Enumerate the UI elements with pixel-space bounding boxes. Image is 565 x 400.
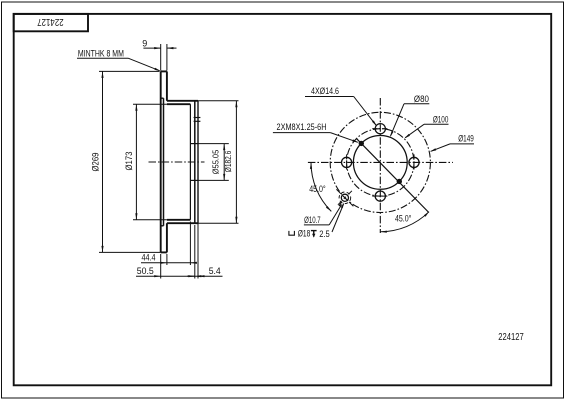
face view vertical centreline [379, 98, 381, 233]
dim D269 arrows [101, 71, 103, 78]
diagonal line through M8 holes [357, 139, 429, 213]
D10.7 hole tilted centrelines [336, 189, 353, 206]
set screw hole D10.7 circle [341, 194, 348, 201]
dim 5.4 extension line [197, 208, 199, 279]
MINTHK underline [77, 57, 129, 59]
hub mounting face [194, 101, 196, 223]
centre bore bottom (D55.05) [190, 179, 198, 181]
dim 50.5 arrows [154, 275, 161, 277]
MINTHK leader line [129, 58, 160, 70]
bolt hole D14.6 bottom [375, 191, 385, 201]
svg-text:45.0°: 45.0° [309, 184, 326, 195]
disc inboard face lower [166, 223, 168, 252]
dim 50.5 dimension line [136, 275, 200, 277]
bolt hole D14.6 left [342, 157, 352, 167]
svg-text:Ø173: Ø173 [124, 152, 134, 171]
label 4XD14.6 leader [354, 97, 377, 126]
disc OD top edge [161, 70, 167, 72]
pilot circle D80 (solid) [353, 136, 407, 190]
svg-text:2.5: 2.5 [319, 229, 330, 239]
label D100 leader [405, 124, 424, 137]
dim D182.6 dimension line [235, 101, 237, 223]
label 2XM8X1.25-6H leader [330, 133, 357, 143]
svg-text:9: 9 [142, 38, 147, 48]
svg-text:Ø182.6: Ø182.6 [223, 151, 233, 173]
dim 5.4 arrows [188, 275, 195, 277]
dim 44.4 extension lines [166, 254, 168, 265]
threaded hole M8 lower-right (filled) [397, 179, 402, 184]
hat outer circle D149 (dash-dot) [330, 112, 430, 212]
dim 44.4 arrows [160, 262, 167, 264]
hat interior ceiling bottom (D173) [167, 219, 191, 221]
title box top-left [14, 14, 88, 31]
svg-text:5.4: 5.4 [209, 266, 221, 276]
label D80 leader [391, 104, 405, 136]
svg-text:Ø55.05: Ø55.05 [211, 150, 221, 175]
svg-text:4XØ14.6: 4XØ14.6 [311, 86, 339, 96]
svg-text:Ø18: Ø18 [298, 229, 311, 239]
label 4XD14.6 arrow [372, 121, 377, 127]
svg-text:2XM8X1.25-6H: 2XM8X1.25-6H [277, 122, 327, 132]
MINTHK leader arrow [154, 68, 160, 71]
svg-text:MINTHK 8 MM: MINTHK 8 MM [78, 48, 124, 58]
bolt circle D100 (dash-dot) [347, 129, 414, 196]
dim D173 arrows [135, 104, 137, 111]
dim D55.05 dimension line [223, 144, 225, 181]
hat crown interior face [189, 104, 191, 220]
45deg arc left arrows [310, 162, 312, 169]
disc OD bottom edge [161, 251, 167, 253]
disc outboard (left) face [160, 71, 162, 252]
svg-text:Ø100: Ø100 [433, 114, 449, 124]
counterbore note leader [332, 204, 344, 232]
dim D182.6 extension lines [195, 100, 239, 102]
label D100 arrow [404, 134, 410, 139]
svg-text:Ø10.7: Ø10.7 [304, 215, 321, 225]
hat outer surface top (D182.6) [167, 100, 198, 102]
bolt hole D14.6 top [375, 124, 385, 134]
svg-text:44.4: 44.4 [142, 253, 156, 263]
45deg arc right arrows [380, 231, 387, 233]
dim 9 arrows [154, 47, 161, 49]
dim 44.4 dimension line [141, 262, 196, 264]
label D80 underline [404, 103, 429, 105]
45deg dimension arc right [380, 212, 429, 232]
disc inboard face upper [166, 71, 168, 100]
threaded hole M8 upper-left (filled) [359, 141, 364, 146]
retaining clip detail [194, 117, 201, 119]
label D149 arrow [430, 148, 437, 151]
counterbore D18 circle (dashed) [339, 192, 351, 204]
label D149 leader [431, 144, 450, 151]
section centreline [149, 161, 205, 163]
svg-text:Ø149: Ø149 [458, 134, 474, 144]
dim 50.5 extension lines [160, 254, 162, 279]
svg-text:Ø269: Ø269 [90, 153, 100, 172]
hat outer surface bottom (D182.6) [167, 222, 198, 224]
svg-text:224127: 224127 [37, 16, 64, 27]
label 2XM8X1.25-6H underline [273, 132, 331, 134]
label D10.7 leader [329, 205, 342, 225]
dim 5.4 dimension line [187, 275, 195, 277]
dim D173 dimension line [135, 104, 137, 220]
dim D173 extension lines [133, 103, 167, 105]
dim 9 extension lines [160, 44, 162, 71]
svg-text:Ø80: Ø80 [414, 94, 429, 104]
pilot collar face [197, 101, 199, 223]
bolt hole D14.6 right [409, 157, 419, 167]
dim D55.05 arrows [223, 144, 225, 151]
label D10.7 arrow [338, 201, 342, 207]
disc inner stepped face (inside hat) [163, 98, 165, 226]
label 2XM8X1.25-6H arrow [352, 139, 359, 142]
label 4XD14.6 underline [305, 96, 354, 98]
dim 9 dimension line [143, 47, 160, 49]
hat interior ceiling top (D173) [167, 103, 191, 105]
face view horizontal centreline [308, 161, 453, 163]
counterbore symbol [289, 231, 295, 235]
depth symbol [311, 230, 317, 232]
dim D269 extension lines [99, 70, 160, 72]
svg-text:45.0°: 45.0° [395, 214, 412, 225]
45deg dimension arc left [311, 162, 331, 211]
svg-text:224127: 224127 [498, 331, 524, 343]
svg-text:50.5: 50.5 [137, 266, 154, 276]
label D100 underline [424, 123, 449, 125]
centre bore top (D55.05) [190, 143, 198, 145]
label D149 underline [450, 143, 474, 145]
dim D182.6 arrows [235, 101, 237, 108]
counterbore note arrow [341, 202, 344, 208]
dim D269 dimension line [102, 71, 104, 252]
dim D55.05 extension lines [198, 143, 229, 145]
label D10.7 underline [304, 224, 329, 226]
label D80 arrow [390, 131, 394, 137]
